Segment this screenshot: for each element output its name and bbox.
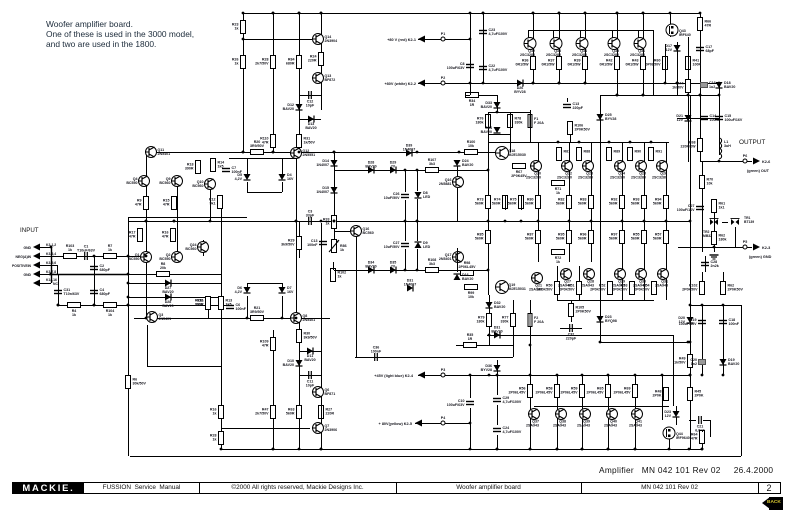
inductor L1 — [719, 138, 731, 159]
wire — [282, 158, 284, 174]
svg-text:D1712V: D1712V — [665, 44, 672, 52]
svg-text:Q122N5551: Q122N5551 — [303, 149, 316, 157]
wire Q14 column — [321, 13, 323, 110]
diode D15 — [316, 186, 337, 194]
svg-text:R672P0K45V: R672P0K45V — [511, 170, 527, 178]
junction top rail — [558, 12, 561, 15]
svg-text:D151N4007: D151N4007 — [316, 186, 329, 194]
resistor R71 — [552, 181, 565, 196]
junction K2-4 rail — [488, 374, 491, 377]
svg-text:D28BAV20: D28BAV20 — [365, 161, 376, 169]
junction — [676, 82, 679, 85]
diode D19 — [720, 358, 740, 366]
junction — [590, 220, 593, 223]
svg-text:C18100nF: C18100nF — [729, 318, 740, 326]
diode D29 — [390, 161, 397, 174]
capacitor C3 — [306, 210, 315, 226]
junction — [568, 220, 571, 223]
wire K2-1 feed — [418, 39, 470, 41]
wire — [321, 398, 323, 422]
resistor R47 — [255, 406, 275, 419]
resistor R35 — [464, 333, 477, 348]
svg-text:C27100uF/16V: C27100uF/16V — [677, 204, 695, 212]
wire F2 column — [530, 300, 532, 375]
resistor R69 — [614, 385, 638, 398]
resistor R75 — [508, 196, 524, 209]
wire driver base link — [334, 170, 488, 172]
resistor R96 — [578, 231, 594, 244]
resistor R24 — [308, 53, 324, 66]
wire — [417, 199, 419, 221]
wire — [208, 297, 210, 318]
resistor R36 — [516, 57, 536, 70]
svg-text:Q24BC560: Q24BC560 — [185, 243, 196, 251]
resistor R104 — [104, 303, 117, 318]
diode D23 — [664, 410, 679, 418]
footer table — [12, 482, 781, 494]
transistor Q25 — [631, 161, 647, 180]
wire output col 2 — [569, 142, 571, 262]
svg-text:R81: R81 — [564, 150, 571, 154]
resistor R31 — [297, 135, 316, 148]
wire — [689, 420, 696, 422]
junction bottom rail — [529, 448, 532, 451]
wire output gnd link — [678, 247, 752, 249]
wire Q12-Q8 column — [296, 158, 298, 313]
resistor R88 — [577, 148, 591, 161]
junction top rail — [320, 12, 323, 15]
capacitor C1 — [77, 245, 96, 261]
junction — [298, 12, 301, 15]
diode D11 — [304, 348, 315, 363]
svg-text:Q13BF872: Q13BF872 — [325, 74, 336, 82]
MOSFET Q44 — [663, 427, 690, 440]
transistor Q10 — [192, 179, 215, 190]
wire — [700, 95, 702, 138]
svg-text:C2680pF: C2680pF — [100, 264, 111, 272]
wire pnp col 1 — [557, 266, 559, 300]
junction — [127, 255, 130, 258]
wire lower input rail — [58, 305, 230, 307]
transistor Q24 — [185, 242, 208, 253]
resistor R26 — [232, 56, 246, 69]
capacitor C17 — [696, 45, 715, 53]
wire — [299, 250, 301, 258]
test point P3 — [441, 368, 445, 377]
svg-text:R1547R: R1547R — [163, 199, 170, 207]
junction — [127, 282, 130, 285]
svg-text:R141k5: R141k5 — [218, 161, 225, 169]
junction — [416, 220, 419, 223]
wire — [40, 256, 49, 258]
junction mid rail — [416, 220, 419, 223]
node INPUT — [20, 227, 39, 234]
svg-text:D31BAV20: D31BAV20 — [491, 326, 502, 334]
svg-text:+ 80V(yellow) K2-5: + 80V(yellow) K2-5 — [379, 422, 412, 426]
svg-text:Q262SC3280: Q262SC3280 — [652, 172, 667, 180]
junction — [242, 12, 245, 15]
resistor R13 — [219, 297, 233, 310]
svg-text:D8LED: D8LED — [423, 191, 431, 199]
wire Q11-Q1 column — [146, 152, 148, 318]
svg-text:R77330k: R77330k — [501, 316, 509, 324]
svg-text:R6447R: R6447R — [691, 433, 698, 441]
transistor Q36 — [630, 38, 646, 58]
diode D34 — [481, 126, 501, 134]
resistor R99 — [465, 285, 478, 300]
arrow K2-3 — [753, 244, 760, 251]
capacitor C14 — [700, 114, 721, 122]
wire — [247, 192, 282, 194]
transistor Q31 — [655, 269, 669, 288]
wire — [299, 375, 321, 377]
svg-text:D19BAV20: D19BAV20 — [728, 358, 739, 366]
resistor R17 — [129, 229, 143, 242]
junction — [482, 12, 485, 15]
svg-text:R7010k: R7010k — [707, 178, 714, 186]
junction — [722, 374, 725, 377]
svg-text:GND: GND — [23, 246, 31, 250]
wire — [465, 95, 470, 97]
wire zener row — [677, 118, 719, 120]
arrow K2-5 — [415, 420, 422, 427]
svg-text:R293k9/50V: R293k9/50V — [281, 239, 295, 247]
trimmer R86 — [329, 240, 347, 253]
wire — [470, 375, 472, 398]
diode D21 — [676, 114, 691, 122]
capacitor C21 — [695, 416, 705, 433]
junction mid rail — [295, 220, 298, 223]
junction bottom rail — [634, 448, 637, 451]
diode D27 — [162, 280, 173, 295]
resistor R109 — [260, 338, 276, 351]
wire C2 column — [94, 256, 96, 305]
wire D32 column — [489, 295, 491, 345]
wire — [571, 300, 573, 303]
junction — [701, 304, 704, 307]
wire R109 column — [273, 330, 275, 449]
svg-text:Q312SA943: Q312SA943 — [655, 280, 668, 288]
junction — [469, 12, 472, 15]
junction — [93, 304, 96, 307]
junction — [488, 334, 491, 337]
diode D28b — [365, 161, 376, 174]
junction — [599, 341, 602, 344]
wire — [321, 84, 323, 110]
arrow NC — [33, 280, 40, 287]
svg-text:Q2BC550: Q2BC550 — [159, 253, 170, 261]
junction mid rail — [173, 220, 176, 223]
svg-text:R1647R: R1647R — [162, 231, 169, 239]
capacitor C15 — [715, 114, 743, 122]
svg-text:R71k: R71k — [108, 244, 113, 252]
wire — [723, 272, 725, 282]
svg-text:R1041k: R1041k — [106, 309, 115, 317]
svg-text:R11b390R: R11b390R — [195, 299, 204, 307]
svg-text:D32BAV20: D32BAV20 — [494, 301, 505, 309]
diode D23z — [597, 315, 617, 323]
junction — [687, 341, 690, 344]
svg-text:R62180k: R62180k — [719, 234, 727, 242]
svg-text:D11BAV20: D11BAV20 — [304, 354, 315, 362]
junction — [295, 220, 298, 223]
test point P1 — [441, 32, 445, 41]
junction — [718, 94, 721, 97]
svg-text:R129k1: R129k1 — [209, 198, 216, 206]
drawing title block text — [599, 465, 773, 475]
svg-text:R282k7/50V: R282k7/50V — [255, 58, 269, 66]
transistor Q13 — [312, 73, 335, 84]
resistor R91 — [649, 148, 663, 161]
wire K2-2 rail — [418, 83, 719, 85]
svg-text:C1210pF: C1210pF — [306, 100, 315, 108]
svg-text:Q302SA943: Q302SA943 — [633, 280, 646, 288]
transistor Q40 — [604, 409, 618, 428]
junction — [616, 94, 619, 97]
junction — [404, 269, 407, 272]
wire frame bottom — [130, 456, 741, 458]
wire triac column — [714, 200, 716, 252]
test point P4 — [441, 416, 445, 425]
capacitor C18 — [719, 318, 740, 326]
svg-text:R78330k: R78330k — [515, 117, 523, 125]
wire bottom col 6 — [662, 375, 664, 420]
junction — [482, 82, 485, 85]
wire Q24 column — [203, 240, 205, 256]
wire OUT line — [719, 161, 752, 163]
svg-text:R96560R: R96560R — [578, 233, 587, 241]
diode D17 — [665, 44, 680, 52]
svg-text:Q1BC550: Q1BC550 — [128, 253, 139, 261]
junction — [558, 82, 561, 85]
svg-text:R1073k3: R1073k3 — [428, 158, 437, 166]
diode D20 — [678, 316, 693, 324]
transistor Q19 — [496, 281, 526, 294]
BACK button — [769, 497, 783, 510]
wire — [700, 161, 719, 163]
MACKIE logo — [13, 483, 84, 493]
junction — [272, 151, 275, 154]
junction — [650, 141, 653, 144]
junction — [469, 38, 472, 41]
junction — [699, 12, 702, 15]
wire — [40, 283, 51, 285]
wire — [40, 274, 49, 276]
junction — [722, 304, 725, 307]
capacitor C2 — [90, 264, 111, 272]
wire R44 column — [688, 95, 690, 130]
junction — [689, 304, 692, 307]
resistor R43 — [626, 57, 646, 70]
junction — [557, 141, 560, 144]
wire input signal — [49, 256, 140, 258]
capacitor C28 — [701, 260, 719, 268]
resistor R81 — [557, 148, 571, 161]
capacitor C16 — [701, 81, 716, 89]
resistor R74 — [492, 196, 508, 209]
resistor R93 — [631, 196, 647, 209]
svg-text:D2112V: D2112V — [676, 114, 683, 122]
resistor R80 — [525, 196, 541, 209]
wire Q10 column — [210, 183, 212, 221]
transistor Q18 — [496, 147, 526, 160]
wire — [497, 95, 499, 112]
wire C31 column — [58, 274, 60, 305]
svg-text:R261k: R261k — [232, 58, 239, 66]
junction K2-4 rail — [529, 374, 532, 377]
junction — [643, 220, 646, 223]
wire Q5-Q2 column — [177, 183, 179, 262]
svg-text:R452P0K: R452P0K — [695, 390, 704, 398]
svg-text:Q322SC3280: Q322SC3280 — [520, 49, 535, 57]
wire — [405, 221, 407, 241]
svg-text:R430R1/5W: R430R1/5W — [626, 59, 640, 67]
junction — [416, 269, 419, 272]
wire — [567, 98, 569, 102]
svg-text:R90: R90 — [635, 150, 642, 154]
wire — [653, 30, 655, 95]
resistor R30 — [297, 330, 318, 343]
svg-text:TR1BT139: TR1BT139 — [744, 216, 754, 224]
svg-text:R721k: R721k — [555, 256, 562, 264]
junction — [537, 220, 540, 223]
junction — [642, 12, 645, 15]
resistor R56 — [509, 385, 533, 398]
triac TR1 BT139 — [731, 219, 740, 226]
svg-text:Q142N3904: Q142N3904 — [325, 35, 338, 43]
svg-text:Q402SA943: Q402SA943 — [604, 420, 617, 428]
svg-text:D18BAV20: D18BAV20 — [724, 81, 735, 89]
svg-text:Q222SC3280: Q222SC3280 — [557, 172, 572, 180]
junction signal rail — [272, 151, 275, 154]
svg-text:P3: P3 — [441, 368, 445, 372]
resistor R97 — [609, 231, 625, 244]
resistor R103 — [64, 244, 77, 259]
junction — [621, 220, 624, 223]
junction — [145, 317, 148, 320]
junction K2-4 rail — [556, 374, 559, 377]
wire — [702, 443, 704, 449]
wire D14 column — [334, 152, 336, 252]
resistor R60 — [646, 57, 668, 70]
svg-text:P6: P6 — [743, 154, 747, 158]
resistor R42 — [600, 57, 620, 70]
transistor Q2 — [159, 252, 182, 263]
wire pnp col 2 — [579, 266, 581, 300]
wire driver collector rail — [488, 142, 669, 144]
capacitor C8 — [447, 62, 474, 70]
svg-text:D34BAV20: D34BAV20 — [365, 261, 376, 269]
diode D39 — [403, 144, 416, 157]
wire R84 column — [299, 13, 301, 152]
fuse F2 — [528, 314, 544, 327]
junction bottom rail — [581, 448, 584, 451]
junction top rail — [482, 12, 485, 15]
wire — [247, 283, 249, 287]
wire — [247, 158, 249, 174]
svg-text:C2610uF/50V: C2610uF/50V — [384, 192, 400, 200]
resistor R50 — [537, 282, 559, 295]
junction R60 — [664, 82, 667, 85]
svg-text:R652P06L45V: R652P06L45V — [587, 387, 605, 395]
svg-text:R420R1/5W: R420R1/5W — [600, 59, 614, 67]
diode D13 — [305, 116, 316, 131]
diode D12 — [283, 103, 303, 111]
junction — [272, 12, 275, 15]
wire center column — [221, 195, 223, 449]
svg-text:L13uH: L13uH — [724, 140, 731, 148]
svg-text:C15100uF/16V: C15100uF/16V — [725, 114, 743, 122]
junction — [333, 220, 336, 223]
svg-text:R281k: R281k — [210, 434, 217, 442]
svg-text:Q382SA943: Q382SA943 — [553, 420, 566, 428]
junction — [529, 344, 532, 347]
resistor R16 — [162, 229, 176, 242]
wire — [580, 30, 582, 38]
svg-text:R370R1/5W: R370R1/5W — [542, 59, 556, 67]
resistor R28 — [255, 56, 275, 69]
wire output col 5 — [644, 142, 646, 300]
junction — [558, 12, 561, 15]
resistor R100 — [465, 140, 478, 155]
svg-text:(green) OUT: (green) OUT — [747, 169, 770, 173]
transistor Q34 — [572, 38, 588, 58]
wire lower signal rail — [134, 318, 330, 320]
svg-text:R1021k: R1021k — [338, 271, 347, 279]
wire — [334, 270, 488, 272]
junction bottom rail — [668, 448, 671, 451]
svg-text:D12BAV20: D12BAV20 — [283, 103, 294, 111]
transistor Q35 — [604, 38, 620, 58]
resistor R65 — [587, 385, 611, 398]
svg-text:R10947R: R10947R — [260, 340, 269, 348]
wire mute link 2 — [456, 345, 513, 347]
resistor R58 — [536, 385, 560, 398]
wire — [478, 95, 497, 97]
junction — [496, 374, 499, 377]
diode D6 — [235, 286, 251, 294]
svg-text:C1768pF: C1768pF — [706, 45, 715, 53]
resistor R16b — [210, 406, 224, 419]
svg-text:R622P0K50V: R622P0K50V — [728, 284, 744, 292]
wire R77 column — [513, 300, 515, 340]
wire — [676, 406, 678, 411]
svg-text:D33BAV20: D33BAV20 — [481, 101, 492, 109]
svg-text:POSITIVEIN: POSITIVEIN — [12, 264, 32, 268]
junction — [629, 141, 632, 144]
diode D18 — [716, 81, 736, 89]
junction — [689, 374, 692, 377]
diode D25 — [597, 113, 617, 121]
wire K2-5 feed — [415, 423, 470, 425]
resistor R108 — [426, 258, 439, 273]
junction — [584, 12, 587, 15]
capacitor C27 — [677, 204, 704, 212]
wire R70 column — [702, 161, 704, 252]
svg-text:R27220R: R27220R — [326, 408, 335, 416]
svg-text:R10010k: R10010k — [467, 140, 476, 148]
resistor R83 — [578, 196, 594, 209]
svg-text:Q82N5401: Q82N5401 — [303, 314, 316, 322]
svg-text:D141N4007: D141N4007 — [316, 159, 329, 167]
resistor R85 — [475, 231, 491, 244]
resistor R77 — [501, 314, 516, 327]
wire — [600, 95, 602, 342]
wire clip diode row — [128, 283, 221, 285]
resistor R15 — [163, 197, 177, 210]
transistor Q41 — [629, 409, 643, 428]
svg-text:R1062P0K50V: R1062P0K50V — [575, 124, 591, 132]
